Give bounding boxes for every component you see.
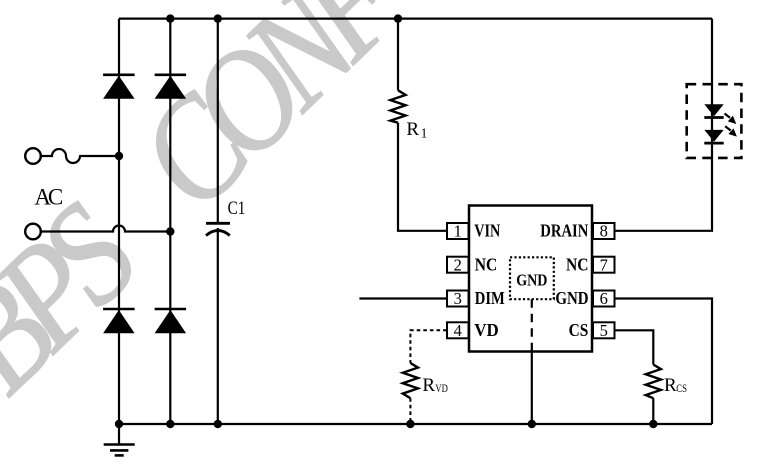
LED LED2: [704, 130, 723, 143]
pin 1 box: [447, 223, 469, 239]
svg-text:NC: NC: [566, 254, 589, 274]
pin 4 box: [447, 322, 469, 338]
svg-text:7: 7: [600, 255, 608, 274]
label RCS: [664, 375, 687, 396]
wire GND pad to bottom rail: [531, 352, 533, 425]
junction bottom rail / RVD: [406, 420, 414, 428]
pin 5 box: [593, 322, 615, 338]
wire R1 to pin 1: [398, 123, 447, 231]
wire C1 branch lower: [217, 228, 219, 424]
svg-text:GND: GND: [516, 270, 547, 289]
svg-text:DRAIN: DRAIN: [540, 221, 588, 241]
terminal AC top: [25, 148, 41, 164]
IC U1 body: [469, 206, 592, 352]
svg-text:R: R: [422, 375, 435, 396]
svg-text:6: 6: [600, 289, 608, 308]
pin 6 box: [593, 291, 615, 307]
wire R1 branch upper: [397, 19, 399, 91]
wire pin 6 GND to bottom rail: [615, 299, 713, 425]
pin 8 box: [593, 223, 615, 239]
pin 3 box: [447, 291, 469, 307]
diode D4: [155, 309, 187, 333]
svg-text:4: 4: [454, 321, 462, 340]
wire C1 branch upper: [217, 19, 219, 222]
svg-text:C1: C1: [228, 198, 246, 219]
wire DIM input: [359, 297, 447, 299]
svg-text:VD: VD: [435, 383, 448, 395]
svg-text:NC: NC: [475, 254, 498, 274]
wire right bridge leg: [169, 19, 171, 424]
wire RVD dashed to rail: [409, 398, 411, 424]
svg-text:5: 5: [600, 321, 608, 340]
wire left bridge leg: [118, 19, 120, 424]
resistor R1: [390, 90, 405, 122]
svg-text:AC: AC: [34, 185, 63, 210]
wire AC top to bridge: [80, 155, 119, 157]
GND pad dashed box: [510, 257, 554, 299]
wire top rail: [119, 18, 712, 20]
svg-text:VIN: VIN: [474, 221, 500, 241]
svg-text:3: 3: [454, 289, 462, 308]
ground: [104, 424, 135, 455]
svg-text:DIM: DIM: [475, 288, 505, 308]
wire VD dashed to RVD: [410, 330, 446, 363]
pin 2 box: [447, 257, 469, 273]
diode D3: [103, 309, 135, 333]
label RVD: [422, 375, 448, 396]
diode D1: [103, 75, 135, 99]
junction top rail / R1 branch: [394, 14, 402, 22]
wire bottom rail: [119, 423, 712, 425]
svg-text:2: 2: [454, 255, 462, 274]
wire CS to RCS: [615, 330, 654, 364]
LED string dashed box: [687, 84, 742, 158]
junction AC top / bridge leg 1: [115, 152, 123, 160]
junction top rail / bridge leg 2: [166, 14, 174, 22]
svg-text:1: 1: [421, 125, 428, 140]
resistor RCS: [646, 365, 661, 399]
junction bottom rail / C1 branch: [214, 420, 222, 428]
svg-text:VD: VD: [474, 320, 499, 340]
svg-text:R: R: [406, 119, 419, 140]
label R1: [406, 119, 427, 141]
capacitor C1: [206, 223, 230, 235]
fuse F1 squiggle: [41, 149, 80, 163]
svg-text:8: 8: [600, 222, 608, 241]
svg-text:1: 1: [454, 222, 462, 241]
svg-text:BPS CONF: BPS CONF: [0, 0, 433, 422]
LED2 emission arrow: [725, 126, 737, 136]
wire AC bottom with hop: [41, 226, 171, 232]
LED LED1: [704, 104, 723, 117]
pin 7 box: [593, 257, 615, 273]
wire RCS to rail: [652, 398, 654, 424]
svg-text:CS: CS: [569, 320, 589, 340]
terminal AC bottom: [25, 224, 41, 240]
junction bottom rail / IC GND: [528, 420, 536, 428]
junction bottom rail / bridge leg 2: [166, 420, 174, 428]
resistor RVD: [403, 363, 418, 398]
svg-text:R: R: [664, 375, 677, 396]
junction top rail / C1 branch: [214, 14, 222, 22]
LED1 emission arrow: [725, 114, 737, 125]
svg-text:CS: CS: [676, 383, 687, 395]
junction bottom rail / RCS: [649, 420, 657, 428]
wire LED branch from top rail to pin 8: [615, 19, 713, 231]
junction AC bottom / bridge leg 2: [166, 227, 174, 235]
diode D2: [155, 75, 187, 99]
wire GND pad dashed stub: [531, 299, 533, 351]
svg-text:GND: GND: [555, 288, 588, 308]
junction bottom rail / bridge leg 1: [115, 420, 123, 428]
